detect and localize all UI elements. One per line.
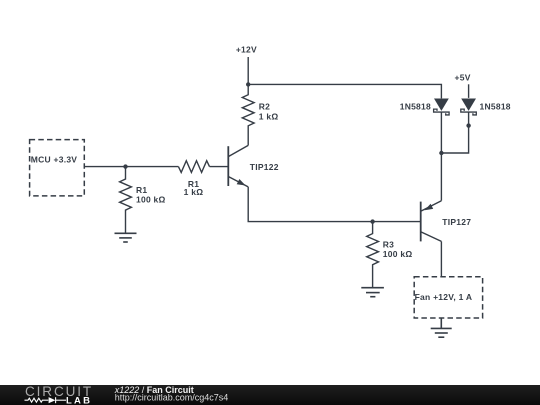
wire top rail to diode D1 [248, 84, 441, 98]
wire TIP122 emitter to TIP127 base [248, 187, 421, 222]
resistor R3 100k [367, 222, 413, 288]
transistor Q2 TIP127 [421, 201, 472, 242]
svg-text:Fan +12V, 1 A: Fan +12V, 1 A [415, 292, 473, 302]
svg-text:100 kΩ: 100 kΩ [383, 249, 413, 259]
diode D2 1N5818 [461, 99, 511, 115]
diode D1 1N5818 [400, 99, 449, 115]
resistor R2 [242, 84, 278, 145]
svg-text:TIP122: TIP122 [250, 162, 279, 172]
svg-text:R2: R2 [259, 102, 270, 112]
box Fan +12V, 1 A [414, 277, 482, 318]
node junction at R1 divider [123, 164, 127, 168]
node junction at +12V rail [246, 82, 250, 86]
wire D1 cathode to TIP127 emitter [440, 112, 442, 201]
ground under R3 [361, 288, 384, 297]
node junction on D1 wire [439, 151, 443, 155]
resistor R1 100k [120, 167, 166, 234]
wire +12V stem [247, 57, 249, 84]
svg-text:TIP127: TIP127 [442, 217, 471, 227]
footer title text [114, 385, 229, 403]
svg-text:1 kΩ: 1 kΩ [259, 112, 279, 122]
power +12V [236, 44, 257, 54]
wire R1 1k to TIP122 base [210, 166, 229, 168]
transistor Q1 TIP122 [228, 145, 278, 187]
svg-text:http://circuitlab.com/cg4c7s4: http://circuitlab.com/cg4c7s4 [115, 393, 229, 403]
box MCU +3.3V [30, 140, 85, 196]
node junction below D2 [466, 123, 470, 127]
svg-text:1 kΩ: 1 kΩ [184, 187, 204, 197]
wire TIP127 collector to fan [440, 241, 442, 276]
power +5V [455, 72, 471, 82]
svg-text:1N5818: 1N5818 [400, 101, 431, 111]
logo CircuitLab [25, 384, 94, 405]
footer bar [0, 385, 540, 405]
wire D2 cathode joining D1 wire [441, 112, 468, 153]
ground under R1 [115, 233, 137, 242]
svg-text:+12V: +12V [236, 44, 257, 54]
ground under fan [431, 318, 452, 337]
svg-text:+5V: +5V [455, 72, 471, 82]
wire MCU output to base resistor [84, 166, 178, 168]
svg-text:MCU +3.3V: MCU +3.3V [31, 155, 77, 165]
wire +5V stem [468, 84, 470, 98]
svg-text:LAB: LAB [66, 395, 92, 405]
svg-text:1N5818: 1N5818 [480, 101, 511, 111]
resistor R1 1k (base) [178, 161, 209, 197]
node junction at R3 [370, 219, 374, 223]
svg-text:100 kΩ: 100 kΩ [136, 194, 166, 204]
